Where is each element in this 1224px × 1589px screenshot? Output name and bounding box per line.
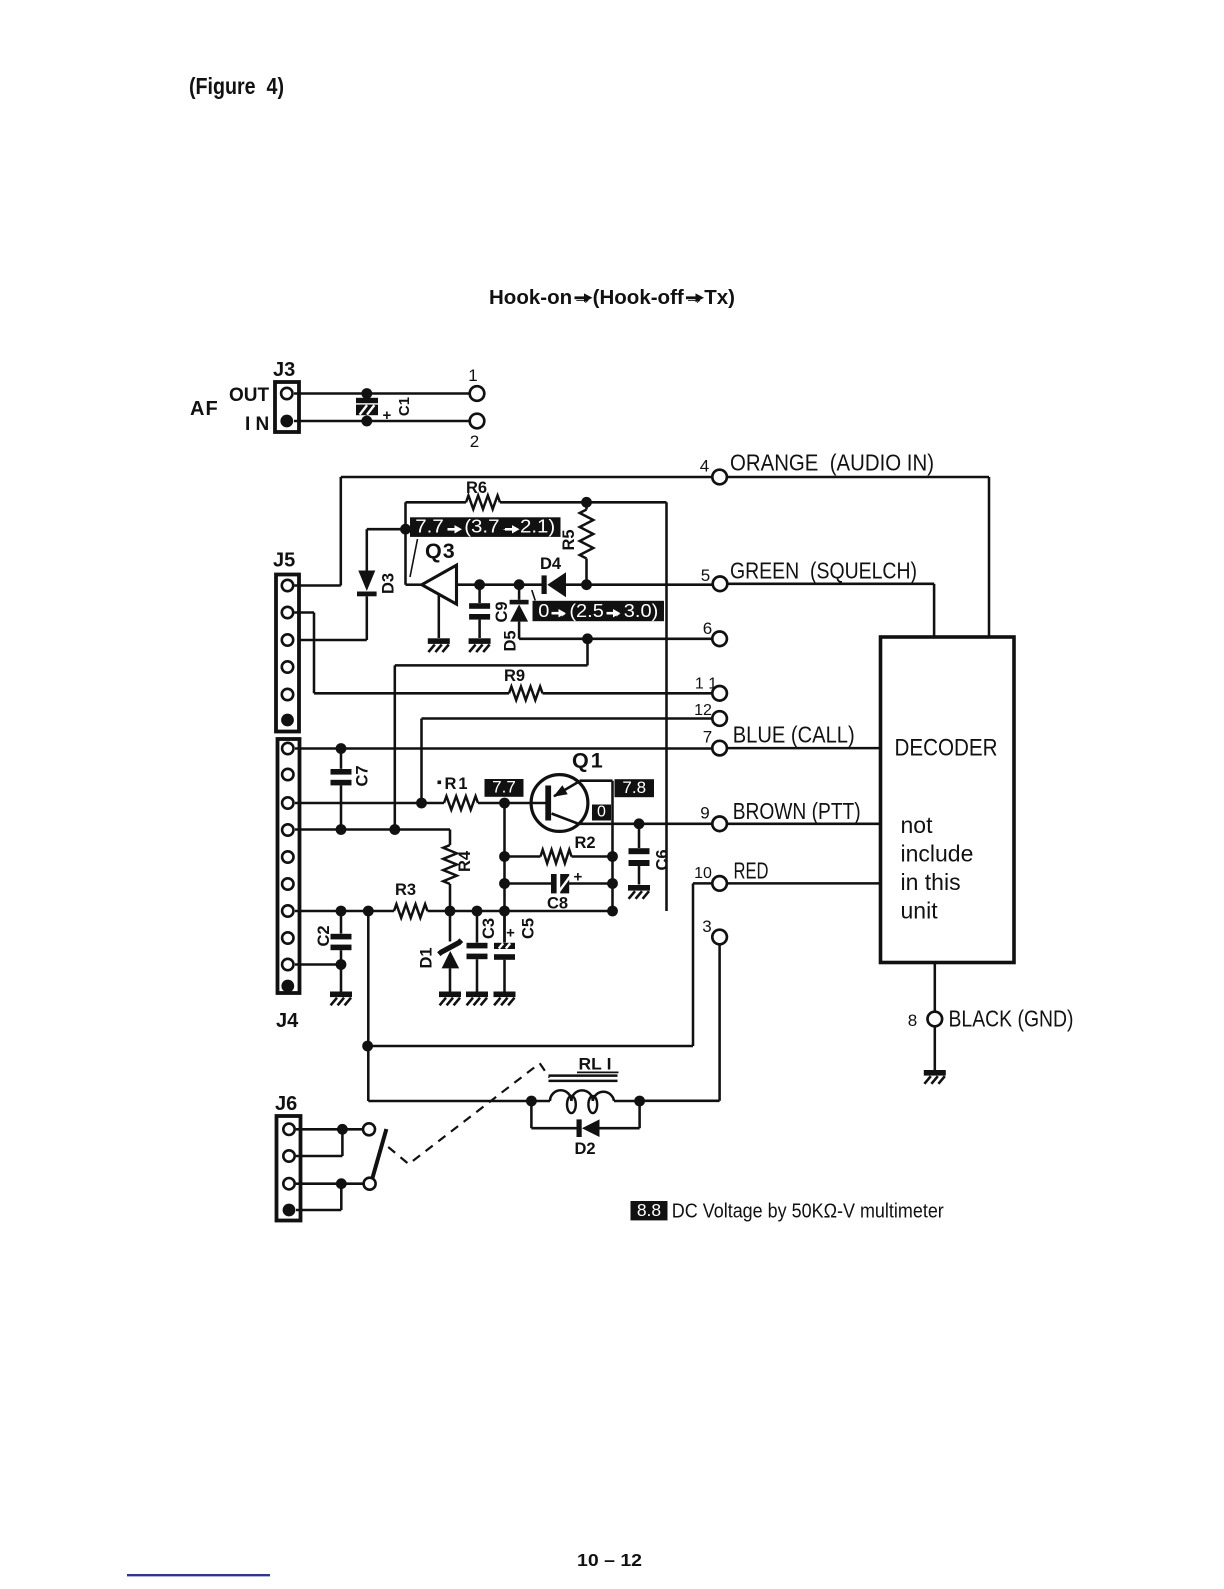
svg-text:3: 3 bbox=[702, 917, 711, 936]
capacitor C8 bbox=[505, 869, 613, 913]
node R2 left junction bbox=[499, 851, 510, 862]
terminal 12 bbox=[694, 702, 727, 726]
svg-text:C1: C1 bbox=[396, 397, 413, 416]
connector J3 label bbox=[273, 359, 295, 381]
resistor R5 bbox=[560, 502, 593, 584]
label BROWN (PTT) bbox=[733, 798, 861, 824]
connector J5 label bbox=[273, 550, 295, 572]
node J6 lower junction bbox=[336, 1178, 347, 1189]
svg-text:R2: R2 bbox=[575, 834, 596, 852]
wire blue line bbox=[295, 747, 712, 750]
legend 8.8 box bbox=[631, 1200, 668, 1220]
resistor R6 bbox=[466, 479, 500, 509]
wire Q3 to ground bbox=[438, 595, 441, 638]
terminal 9 bbox=[700, 804, 727, 832]
capacitor C6 bbox=[629, 824, 672, 885]
label GREEN (SQUELCH) bbox=[730, 558, 917, 584]
wire line6 down to cross line bbox=[395, 639, 588, 830]
wire D3 branch bbox=[367, 528, 406, 531]
svg-text:7.7: 7.7 bbox=[492, 778, 516, 797]
node C6 junction bbox=[634, 818, 645, 829]
svg-text:4: 4 bbox=[700, 457, 709, 476]
diode D2 bbox=[531, 1101, 639, 1158]
svg-text:8: 8 bbox=[908, 1011, 917, 1030]
svg-text:+: + bbox=[574, 869, 583, 886]
wire Q3 output line bbox=[457, 583, 542, 586]
switch lower contact bbox=[364, 1178, 376, 1190]
legend text bbox=[672, 1201, 944, 1223]
diode D4 bbox=[540, 555, 712, 597]
wire J5 pin2 to R9 line bbox=[295, 613, 315, 694]
resistor R3 bbox=[394, 881, 428, 918]
terminal 8 bbox=[908, 1011, 942, 1030]
node J6 upper junction bbox=[337, 1124, 348, 1135]
svg-text:C6: C6 bbox=[654, 849, 672, 870]
svg-text:C5: C5 bbox=[520, 918, 538, 939]
terminal 10 bbox=[694, 865, 727, 891]
svg-text:in this: in this bbox=[901, 869, 961, 895]
node D5 junction bbox=[514, 579, 525, 590]
ground C2 bbox=[330, 992, 352, 1006]
wire line 6 bbox=[519, 638, 712, 641]
svg-text:J5: J5 bbox=[273, 550, 295, 572]
terminal 1 bbox=[468, 366, 484, 401]
wire Q3 input vertical bbox=[406, 502, 422, 584]
svg-text:BROWN (PTT): BROWN (PTT) bbox=[733, 798, 861, 824]
svg-text:C9: C9 bbox=[493, 601, 511, 622]
wire line 11 bbox=[314, 692, 712, 695]
connector J3 bbox=[275, 382, 299, 432]
svg-text:D2: D2 bbox=[575, 1140, 596, 1158]
svg-text:5: 5 bbox=[701, 566, 710, 585]
relay RL1 core bbox=[549, 1076, 618, 1081]
transistor Q1 label bbox=[572, 749, 605, 773]
wire R3 line bbox=[295, 910, 613, 913]
wire AF OUT to terminal 1 bbox=[294, 392, 470, 395]
wire decoder to terminal 8 bbox=[934, 963, 937, 1012]
svg-text:0→(2.5→3.0): 0→(2.5→3.0) bbox=[538, 601, 658, 621]
resistor R9 bbox=[504, 667, 543, 700]
switch linkage dashed bbox=[388, 1063, 549, 1164]
capacitor C3 bbox=[467, 911, 499, 992]
wire green line to decoder bbox=[727, 584, 934, 639]
label ORANGE (AUDIO IN) bbox=[730, 450, 934, 476]
svg-text:C3: C3 bbox=[480, 918, 498, 939]
capacitor C2 bbox=[315, 911, 352, 992]
voltage label 0 at Q1 bbox=[592, 803, 611, 820]
terminal 4 bbox=[700, 457, 727, 485]
wire AF IN to terminal 2 bbox=[294, 420, 470, 423]
svg-text:R5: R5 bbox=[560, 529, 578, 550]
svg-text:J3: J3 bbox=[273, 359, 295, 381]
connector J6 label bbox=[275, 1093, 297, 1115]
svg-text:unit: unit bbox=[901, 898, 939, 924]
wire R1 line bbox=[295, 802, 546, 805]
label IN bbox=[245, 414, 269, 435]
node C2 bottom junction bbox=[336, 959, 347, 970]
node relay feed junction bbox=[362, 1041, 373, 1052]
svg-text:+: + bbox=[506, 925, 515, 942]
svg-text:RL I: RL I bbox=[579, 1055, 612, 1074]
svg-text:D5: D5 bbox=[502, 630, 520, 651]
wire red to decoder bbox=[727, 882, 881, 885]
svg-text:D1: D1 bbox=[418, 947, 436, 968]
wire terminal 3 to relay bbox=[640, 944, 720, 1100]
diode D1 bbox=[418, 911, 462, 992]
wire terminal 8 to ground bbox=[934, 1027, 937, 1071]
node R5 top junction bbox=[581, 497, 592, 508]
wire J6 pins 3-4 to switch bbox=[296, 1184, 363, 1210]
svg-text:AF: AF bbox=[190, 398, 219, 420]
node C7 bottom junction bbox=[336, 824, 347, 835]
switch upper contact bbox=[363, 1123, 375, 1135]
svg-text:GREEN (SQUELCH): GREEN (SQUELCH) bbox=[730, 558, 917, 584]
svg-text:BLACK (GND): BLACK (GND) bbox=[949, 1006, 1074, 1032]
ground C9 bbox=[469, 638, 491, 652]
ground C6 bbox=[628, 885, 650, 899]
svg-text:C2: C2 bbox=[315, 925, 333, 946]
voltage label 0 to (2.5 to 3.0) bbox=[532, 590, 664, 621]
svg-text:1 1: 1 1 bbox=[695, 676, 717, 693]
wire orange line to decoder bbox=[727, 477, 989, 639]
wire line 12 bbox=[422, 719, 712, 804]
node D3 branch junction bbox=[400, 524, 411, 535]
ground C3 bbox=[466, 992, 488, 1006]
svg-text:8.8: 8.8 bbox=[637, 1200, 661, 1220]
node R5 bottom junction bbox=[581, 579, 592, 590]
voltage label 7.7 to (3.7 to 2.1) bbox=[410, 517, 561, 577]
svg-text:D4: D4 bbox=[540, 555, 562, 573]
svg-text:0: 0 bbox=[597, 803, 606, 820]
wire vertical from R3 line to relay bbox=[368, 911, 531, 1101]
relay RL1 coil bbox=[526, 1090, 645, 1113]
svg-text:not: not bbox=[901, 812, 934, 838]
label AF bbox=[190, 398, 219, 420]
wire brown line bbox=[579, 823, 712, 826]
svg-text:(Figure 4): (Figure 4) bbox=[189, 73, 284, 99]
svg-text:10: 10 bbox=[694, 865, 712, 882]
svg-text:7.7→(3.7→2.1): 7.7→(3.7→2.1) bbox=[415, 517, 555, 537]
svg-text:R9: R9 bbox=[504, 667, 525, 685]
connector J6 bbox=[277, 1116, 301, 1221]
figure title bbox=[189, 73, 284, 99]
svg-text:DC Voltage by 50KΩ-V multimete: DC Voltage by 50KΩ-V multimeter bbox=[672, 1201, 944, 1223]
decoder label bbox=[895, 735, 998, 762]
page number bbox=[577, 1550, 642, 1570]
capacitor C9 bbox=[469, 585, 511, 638]
wire red line down to relay feed bbox=[368, 883, 712, 1046]
svg-text:2: 2 bbox=[470, 432, 479, 451]
label BLACK (GND) bbox=[949, 1006, 1074, 1032]
wire J5 pin3 to D3 bbox=[295, 639, 367, 642]
node Q1 base junction bbox=[499, 798, 510, 809]
relay RL1 label bbox=[577, 1055, 619, 1074]
hook switch arm bbox=[372, 1129, 386, 1179]
svg-text:1: 1 bbox=[468, 366, 477, 385]
label OUT bbox=[229, 385, 270, 406]
svg-text:J6: J6 bbox=[275, 1093, 297, 1115]
capacitor C5 bbox=[494, 911, 538, 992]
node R2 right junction bbox=[607, 851, 618, 862]
ground C5 bbox=[494, 992, 516, 1006]
capacitor C1 bbox=[356, 388, 413, 426]
svg-text:DECODER: DECODER bbox=[895, 735, 998, 762]
wire right-side vertical to R3 line bbox=[665, 502, 668, 911]
svg-text:R3: R3 bbox=[395, 881, 416, 899]
wire Q1 base vertical bbox=[503, 803, 506, 942]
svg-text:R6: R6 bbox=[466, 479, 487, 497]
terminal 11 bbox=[695, 676, 727, 701]
svg-text:R1: R1 bbox=[445, 775, 470, 793]
connector J5 bbox=[276, 575, 299, 732]
terminal 7 bbox=[703, 728, 727, 756]
node cross junction bbox=[389, 824, 400, 835]
wire J4 pin9 to C2 bbox=[295, 963, 341, 966]
diode D3 bbox=[357, 529, 398, 640]
terminal 2 bbox=[470, 414, 485, 451]
svg-text:RED: RED bbox=[734, 858, 769, 884]
node line12 junction bbox=[416, 798, 427, 809]
ground D1 bbox=[439, 992, 461, 1006]
svg-text:Q3: Q3 bbox=[425, 539, 456, 563]
ground Q3 bbox=[428, 638, 450, 652]
svg-text:Q1: Q1 bbox=[572, 749, 605, 773]
wire J6 pins 1-2 to switch bbox=[296, 1129, 363, 1156]
wire J5 pin1 to orange vertical bbox=[295, 584, 341, 587]
resistor R2 bbox=[505, 834, 613, 863]
svg-text:BLUE (CALL): BLUE (CALL) bbox=[733, 722, 855, 748]
node R3 line junctions bbox=[336, 906, 618, 917]
svg-text:+: + bbox=[383, 407, 392, 424]
svg-text:6: 6 bbox=[703, 619, 712, 638]
node C9 junction bbox=[474, 579, 485, 590]
footer blue line bbox=[127, 1574, 270, 1576]
caption Hook-on to Hook-off/Tx bbox=[489, 287, 735, 309]
voltage label 7.7 bbox=[485, 778, 524, 797]
decoder note text bbox=[901, 812, 974, 924]
wire R6 line bbox=[406, 501, 667, 504]
svg-text:include: include bbox=[901, 841, 974, 867]
svg-text:7.8: 7.8 bbox=[622, 778, 646, 797]
resistor R1 bbox=[438, 775, 479, 810]
transistor Q3 bbox=[422, 565, 457, 604]
capacitor C7 bbox=[331, 749, 372, 830]
ground decoder bbox=[924, 1070, 946, 1084]
svg-text:D3: D3 bbox=[380, 573, 398, 594]
node C8 right junction bbox=[607, 878, 618, 889]
svg-text:I N: I N bbox=[245, 414, 269, 435]
node line6 junction bbox=[582, 633, 593, 644]
wire Q1 emitter to right vertical bbox=[580, 781, 613, 911]
svg-text:J4: J4 bbox=[276, 1010, 299, 1032]
svg-text:ORANGE (AUDIO IN): ORANGE (AUDIO IN) bbox=[730, 450, 934, 476]
wire C7-R4 line bbox=[295, 828, 450, 831]
svg-text:12: 12 bbox=[694, 702, 712, 719]
terminal 3 bbox=[702, 917, 727, 944]
connector J4 bbox=[278, 739, 300, 993]
terminal 6 bbox=[703, 619, 727, 646]
node C7 top junction bbox=[336, 743, 347, 754]
svg-text:R4: R4 bbox=[456, 850, 474, 872]
terminal 5 bbox=[701, 566, 728, 591]
wire orange line left segment bbox=[341, 477, 712, 586]
wire brown to decoder bbox=[727, 823, 881, 826]
svg-text:7: 7 bbox=[703, 728, 712, 747]
transistor Q3 label bbox=[425, 539, 456, 563]
diode D5 bbox=[502, 585, 529, 652]
voltage label 7.8 bbox=[615, 778, 655, 797]
connector J4 label bbox=[276, 1010, 299, 1032]
transistor Q1 bbox=[531, 775, 588, 832]
resistor R4 bbox=[443, 830, 474, 912]
svg-text:10 – 12: 10 – 12 bbox=[577, 1550, 642, 1570]
node C8 left junction bbox=[499, 878, 510, 889]
decoder box bbox=[881, 637, 1015, 963]
label BLUE (CALL) bbox=[733, 722, 855, 748]
label RED bbox=[734, 858, 769, 884]
wire blue to decoder bbox=[727, 747, 881, 750]
svg-text:9: 9 bbox=[700, 804, 709, 823]
svg-text:OUT: OUT bbox=[229, 385, 270, 406]
svg-text:C7: C7 bbox=[354, 765, 372, 786]
